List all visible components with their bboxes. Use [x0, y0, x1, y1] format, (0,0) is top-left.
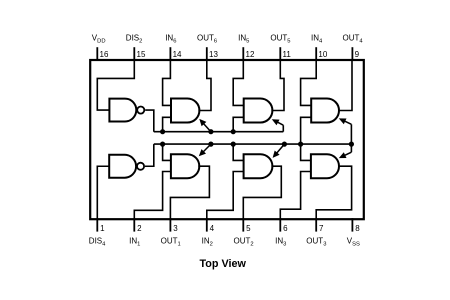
svg-text:IN3: IN3 — [275, 236, 286, 247]
pin 6 lead (bottom) — [279, 218, 281, 231]
AND gate U6 (buffer 2) — [244, 154, 273, 178]
svg-text:5: 5 — [246, 224, 251, 233]
pin 9 number — [355, 50, 360, 59]
pin 16 number — [100, 50, 109, 59]
svg-text:16: 16 — [100, 50, 109, 59]
pin 7 number — [319, 224, 324, 233]
pin 2 label IN1 — [129, 236, 140, 247]
pin 3 number — [173, 224, 178, 233]
AND gate U3 (buffer 5) — [244, 99, 273, 123]
pin 4 label IN2 — [202, 236, 213, 247]
pin 1 number — [100, 224, 105, 233]
svg-text:VSS: VSS — [347, 236, 360, 247]
pin 12 number — [246, 50, 255, 59]
pin 5 lead (bottom) — [242, 218, 244, 231]
junction: bus2 / U6 arrow — [282, 142, 287, 147]
wire: bus2 to U7 (buffer 3) inhibit input — [301, 144, 312, 160]
junction: bus2 / U5 inhibit — [160, 142, 165, 147]
wire: U3 (buffer 5) output to pin OUT5 — [271, 60, 284, 111]
pin 2 number — [137, 224, 142, 233]
pin 14 lead (top) — [169, 47, 171, 61]
pin 10 number — [318, 50, 327, 59]
wire: U1B output to bus2 — [145, 144, 154, 166]
wire: U7 (buffer 3) output to pin OUT3 — [316, 166, 351, 219]
svg-text:2: 2 — [137, 224, 142, 233]
wire: pin 15 DIS2 to NAND U1A input — [97, 60, 134, 110]
pin 8 label VSS — [347, 236, 360, 247]
wire: pin IN6 to U2 (buffer 6) input — [163, 60, 172, 105]
svg-text:IN6: IN6 — [165, 33, 176, 44]
pin 10 lead (top) — [315, 47, 317, 61]
pin 1 label DIS4 — [89, 236, 106, 247]
pin 13 label OUT6 — [197, 33, 217, 44]
pin 11 lead (top) — [279, 47, 281, 61]
pin 13 lead (top) — [206, 47, 208, 61]
wire: U4 (buffer 4) output to pin OUT4 — [338, 60, 352, 111]
svg-text:OUT3: OUT3 — [306, 236, 326, 247]
junction: bus1 / U2 inhibit — [160, 129, 165, 134]
wire: bus2 to U5 (buffer 1) inhibit input — [163, 144, 172, 160]
svg-text:11: 11 — [283, 50, 292, 59]
wire: pin IN5 to U3 (buffer 5) input — [233, 60, 245, 105]
wire: pin IN2 to U6 (buffer 2) input — [207, 172, 245, 220]
svg-text:Top View: Top View — [200, 258, 247, 270]
svg-text:OUT4: OUT4 — [343, 33, 364, 44]
wire: bus2 to U4 (buffer 4) inhibit input — [301, 117, 313, 144]
pin 4 lead (bottom) — [206, 218, 208, 231]
AND gate U4 (buffer 4) — [311, 99, 339, 123]
three-state control arrow into U2 — [199, 119, 211, 132]
svg-text:OUT5: OUT5 — [270, 33, 290, 44]
pin 15 lead (top) — [133, 47, 135, 61]
svg-text:14: 14 — [173, 50, 182, 59]
pin 12 label IN5 — [238, 33, 249, 44]
svg-text:IN1: IN1 — [129, 236, 140, 247]
svg-text:IN2: IN2 — [202, 236, 213, 247]
NAND U1A (DIS2 inhibit driver) — [109, 99, 144, 122]
three-state control arrow into U3 (from bus1 end) — [272, 119, 284, 132]
pin 6 number — [283, 224, 288, 233]
svg-text:DIS4: DIS4 — [89, 236, 106, 247]
svg-text:DIS2: DIS2 — [126, 33, 143, 44]
svg-text:8: 8 — [355, 224, 360, 233]
pin 13 number — [209, 50, 218, 59]
svg-text:12: 12 — [246, 50, 255, 59]
pin 7 lead (bottom) — [315, 218, 317, 231]
svg-text:VDD: VDD — [92, 33, 106, 44]
junction: bus2 / U5 arrow — [208, 142, 213, 147]
pin 10 label IN4 — [311, 33, 323, 44]
IC package outline (16-pin DIP, top view) — [90, 60, 364, 219]
bus1: top-row inhibit line — [154, 131, 283, 133]
pin 4 number — [210, 224, 215, 233]
svg-text:IN4: IN4 — [311, 33, 323, 44]
pin 5 number — [246, 224, 251, 233]
pin 16 label VDD — [92, 33, 106, 44]
pin 8 lead (bottom) — [351, 218, 353, 231]
pin 11 label OUT5 — [270, 33, 290, 44]
svg-text:OUT2: OUT2 — [234, 236, 254, 247]
svg-text:IN5: IN5 — [238, 33, 249, 44]
pin 9 lead (top) — [351, 47, 353, 61]
AND gate U5 (buffer 1) — [171, 154, 199, 178]
svg-text:3: 3 — [173, 224, 178, 233]
junction: bus2 / U6 inhibit — [231, 142, 236, 147]
three-state control arrow into U4 (from bus2 riser) — [339, 118, 352, 144]
svg-text:13: 13 — [209, 50, 218, 59]
pin 5 label OUT2 — [234, 236, 254, 247]
three-state control arrow into U5 — [199, 144, 211, 156]
wire: pin IN1 to U5 (buffer 1) input — [134, 172, 172, 220]
wire: U2 (buffer 6) output to pin OUT6 — [198, 60, 211, 111]
junction: bus1 / U3 inhibit — [231, 129, 236, 134]
junction: bus2 end / U4-U7 arrow riser — [349, 142, 354, 147]
three-state control arrow into U6 — [273, 144, 285, 158]
junction: bus2 / U4-U7 inhibit riser — [298, 142, 303, 147]
svg-text:6: 6 — [283, 224, 288, 233]
wire: U6 (buffer 2) output to pin OUT2 — [243, 166, 281, 219]
pin 15 label DIS2 — [126, 33, 143, 44]
svg-text:7: 7 — [319, 224, 324, 233]
AND gate U2 (buffer 6) — [171, 99, 199, 123]
svg-text:OUT1: OUT1 — [161, 236, 181, 247]
wire: bus1 to U3 (buffer 5) inhibit input — [233, 117, 245, 131]
svg-text:4: 4 — [210, 224, 215, 233]
pin 2 lead (bottom) — [133, 218, 135, 231]
wire: pin IN4 to U4 (buffer 4) input — [301, 60, 317, 105]
AND gate U7 (buffer 3) — [311, 154, 339, 178]
wire: bus2 to U6 (buffer 2) inhibit input — [233, 144, 244, 160]
pin 11 number — [283, 50, 292, 59]
pin 15 number — [137, 50, 146, 59]
wire: pin 1 DIS4 to NAND U1B input — [97, 166, 110, 219]
pin 9 label OUT4 — [343, 33, 364, 44]
NAND U1B (DIS4 inhibit driver) — [109, 155, 144, 178]
wire: U1A output to bus1 — [145, 110, 154, 132]
svg-text:1: 1 — [100, 224, 105, 233]
wire: U5 (buffer 1) output to pin OUT1 — [170, 166, 209, 219]
pin 1 lead (bottom) — [96, 218, 98, 231]
svg-text:10: 10 — [318, 50, 327, 59]
three-state control arrow into U7 (from bus2 riser) — [339, 144, 352, 158]
svg-text:9: 9 — [355, 50, 360, 59]
pin 6 label IN3 — [275, 236, 286, 247]
svg-text:OUT6: OUT6 — [197, 33, 217, 44]
pin 14 number — [173, 50, 182, 59]
pin 7 label OUT3 — [306, 236, 326, 247]
pin 16 lead (top) — [96, 47, 98, 61]
wire: bus1 to U2 (buffer 6) inhibit input — [163, 117, 172, 131]
svg-text:15: 15 — [137, 50, 146, 59]
bus2: bottom-row inhibit line — [154, 143, 352, 145]
caption: Top View — [200, 258, 247, 270]
pin 12 lead (top) — [242, 47, 244, 61]
pin 8 number — [355, 224, 360, 233]
junction: bus1 / U2 arrow — [208, 129, 213, 134]
pin 14 label IN6 — [165, 33, 176, 44]
pin 3 lead (bottom) — [169, 218, 171, 231]
wire: pin IN3 to U7 (buffer 3) input — [280, 172, 312, 220]
pin 3 label OUT1 — [161, 236, 181, 247]
